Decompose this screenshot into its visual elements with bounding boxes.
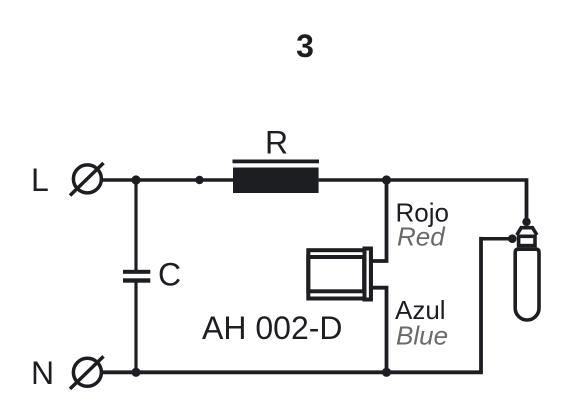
ballast box AH 002-D outer xyxy=(308,250,371,298)
svg-text:Blue: Blue xyxy=(396,321,448,351)
terminal N xyxy=(70,356,104,389)
junction rojo-top xyxy=(382,175,391,184)
wire top rail L to resistor xyxy=(103,178,235,182)
wire lamp to return xyxy=(481,237,512,241)
capacitor branch lower wire xyxy=(134,282,137,372)
wire rojo branch xyxy=(369,180,387,261)
junction capacitor-top xyxy=(131,175,140,184)
wire return drop xyxy=(479,237,483,372)
svg-text:Red: Red xyxy=(397,222,446,252)
node lamp-left xyxy=(508,234,517,243)
svg-text:3: 3 xyxy=(296,28,314,64)
terminal L xyxy=(70,163,104,196)
capacitor branch upper wire xyxy=(134,180,137,271)
node dot on top rail xyxy=(195,176,203,184)
wire right drop to lamp xyxy=(525,178,529,221)
lamp base trapezoid xyxy=(517,228,537,235)
node lamp-top xyxy=(522,218,530,226)
wire top rail resistor to corner xyxy=(319,178,527,182)
capacitor C xyxy=(123,270,150,283)
lamp bulb body xyxy=(515,249,539,320)
svg-text:C: C xyxy=(158,257,181,293)
svg-text:R: R xyxy=(265,125,288,161)
svg-text:N: N xyxy=(31,355,54,391)
junction capacitor-bottom xyxy=(131,368,140,377)
svg-text:L: L xyxy=(31,162,49,198)
wire bottom rail xyxy=(103,370,483,374)
resistor R xyxy=(233,160,320,194)
wire azul branch xyxy=(369,288,387,373)
ballast box right connector strip xyxy=(365,249,371,300)
ballast box inner xyxy=(308,257,364,291)
junction azul-bottom xyxy=(382,368,391,377)
lamp neck xyxy=(519,236,535,245)
svg-text:AH 002-D: AH 002-D xyxy=(202,310,343,346)
